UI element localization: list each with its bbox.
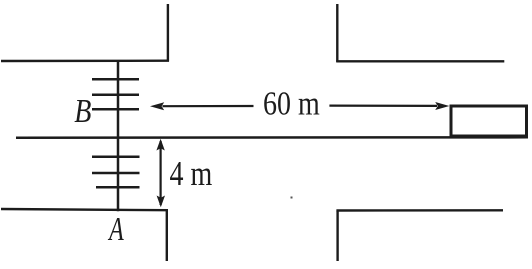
road edge top-right horizontal <box>336 60 504 62</box>
road edge top-left vertical <box>167 4 169 62</box>
arrow 4 m top head <box>156 139 164 151</box>
road edge bottom-right vertical <box>336 211 338 262</box>
svg-text:60 m: 60 m <box>263 84 320 122</box>
arrow 4 m vertical line <box>160 141 162 205</box>
arrow 60 m left line <box>163 105 254 107</box>
road center line <box>16 136 528 139</box>
tie 6 <box>96 186 140 189</box>
arrow 60 m right line <box>329 104 437 107</box>
tie 5 <box>92 172 140 175</box>
speck <box>291 197 293 199</box>
svg-text:A: A <box>107 211 123 248</box>
road edge bottom-left horizontal <box>1 209 168 210</box>
road edge top-left horizontal <box>1 60 169 63</box>
car rectangle <box>451 106 527 136</box>
railway crossing line <box>117 61 120 211</box>
arrow 60 m right head <box>435 102 449 110</box>
tie 1 <box>92 78 139 81</box>
tie 3 <box>92 108 139 111</box>
svg-text:4 m: 4 m <box>170 154 213 193</box>
tie 4 <box>92 156 140 159</box>
road edge bottom-left vertical <box>166 210 168 261</box>
arrow 60 m left head <box>150 102 164 110</box>
road edge bottom-right horizontal <box>336 209 503 212</box>
tie 2 <box>92 93 139 96</box>
arrow 4 m bottom head <box>157 196 165 208</box>
road edge top-right vertical <box>336 4 338 62</box>
svg-text:B: B <box>74 91 91 129</box>
